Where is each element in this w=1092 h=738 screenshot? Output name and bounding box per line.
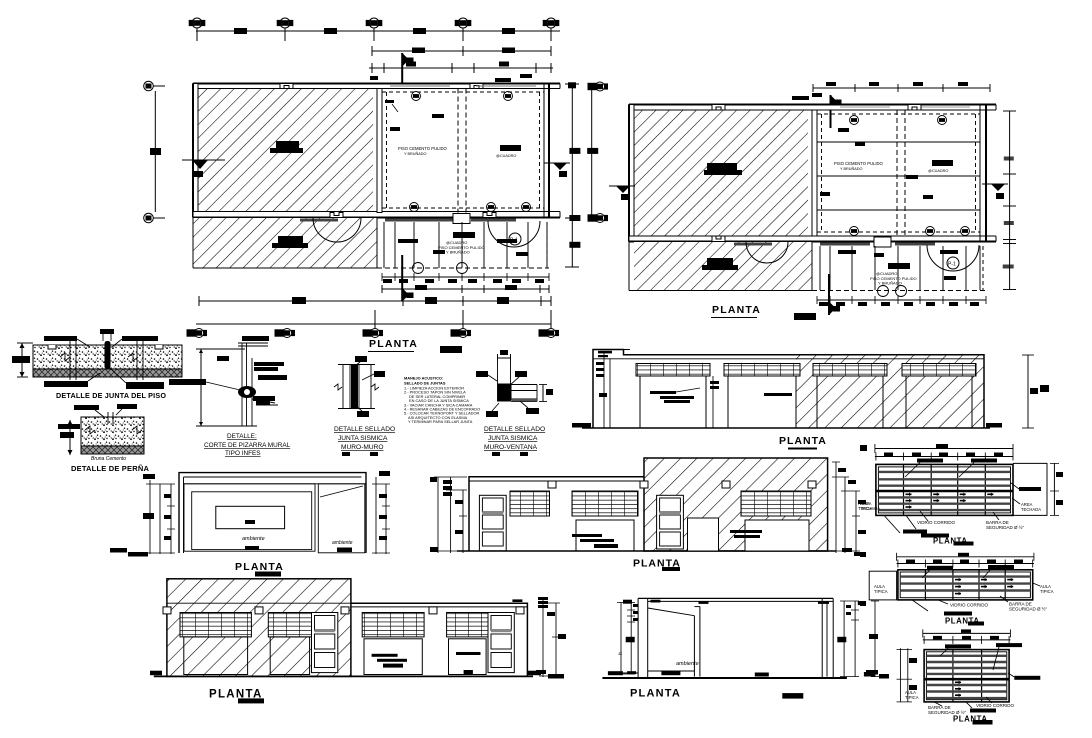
svg-text:SEGURIDAD Ø ½": SEGURIDAD Ø ½" <box>1009 606 1048 612</box>
svg-text:VIDRIO CORRIDO: VIDRIO CORRIDO <box>976 703 1015 708</box>
left part outline <box>469 477 644 551</box>
svg-text:ambiente: ambiente <box>676 661 699 667</box>
top joint lines perña <box>107 412 109 424</box>
window sills in top wall <box>390 85 536 87</box>
middle dashed wall rooms B/C <box>457 89 459 213</box>
grille band 2 <box>724 364 800 377</box>
patio plan2 door arc <box>927 245 979 271</box>
svg-text:JUNTA SISMICA: JUNTA SISMICA <box>338 435 388 442</box>
svg-text:DETALLE SELLADO: DETALLE SELLADO <box>334 426 395 433</box>
opening 4 elev4 <box>449 639 487 675</box>
dim bracket left pizarra <box>200 349 202 426</box>
middle divider tab1 <box>876 490 1013 493</box>
fixture blobs pizarra <box>238 386 275 405</box>
left wall section <box>637 598 639 678</box>
grid bubble A4 <box>455 18 471 28</box>
top cap pizarra <box>238 342 268 344</box>
lower hatched strip <box>193 218 377 268</box>
svg-text:PLANTA: PLANTA <box>779 435 827 447</box>
door leaf bar strip plan2 <box>734 243 772 246</box>
pilaster squares elev4 <box>163 607 524 614</box>
bruña leader labels patio <box>398 239 528 256</box>
dim text blobs top row <box>234 28 515 34</box>
top right small text elev4 <box>512 599 522 602</box>
top labels junta piso <box>44 329 158 341</box>
joint strip black <box>351 365 358 409</box>
left dims elev2 <box>149 480 151 554</box>
dashed border verticals rooms E/F <box>821 114 823 232</box>
right dim bracket ventana <box>542 385 544 402</box>
wall lines pizarra <box>241 343 243 426</box>
dim row under patio 1 <box>382 276 549 278</box>
patio bottom dashed line <box>377 267 549 269</box>
garage door 2 <box>728 376 796 428</box>
small text top-left elev1 <box>598 351 612 357</box>
room D label blobs <box>704 163 742 175</box>
lower hatched strip plan2 <box>634 242 812 290</box>
frame tab2 <box>898 570 1033 600</box>
caps muro-muro <box>338 364 375 366</box>
patio plan2 labels <box>888 263 910 269</box>
left dims tab3 <box>900 648 902 702</box>
top-left labels plan2 <box>792 93 822 100</box>
strip label blobs <box>272 236 308 248</box>
svg-text:ambiente: ambiente <box>332 540 353 546</box>
svg-text:@CUADRO: @CUADRO <box>928 169 948 173</box>
dim line 1 tab1 <box>875 448 1013 450</box>
frame tab3 <box>924 650 1009 702</box>
dim row 3 <box>369 67 553 69</box>
stray left marks tab2 <box>860 552 866 606</box>
svg-text:PISO CEMENTO PULIDO: PISO CEMENTO PULIDO <box>398 146 448 151</box>
bottom EJE bubble B4 <box>451 329 471 338</box>
left grid bubble 2 <box>144 213 154 223</box>
roof slope interior <box>648 608 695 616</box>
top dim bracket <box>498 357 511 359</box>
svg-text:PLANTA: PLANTA <box>712 304 761 316</box>
slab stippled <box>33 345 182 369</box>
room F label blob <box>932 160 953 166</box>
garage door 1 <box>640 376 706 428</box>
louvre arrows tab1 <box>906 493 994 509</box>
right EJE bubbles <box>588 82 608 91</box>
dashed border verticals rooms B/C <box>386 92 388 208</box>
opening 3 elev4 <box>364 639 422 675</box>
base course perña <box>81 446 144 454</box>
grille band 4 elev4 <box>447 613 488 637</box>
elevation 1: right-middle four garage doors <box>572 350 1049 449</box>
svg-text:ambiente: ambiente <box>242 536 265 542</box>
slab top notches <box>48 345 56 349</box>
middle divider tab3 <box>924 678 1009 681</box>
dim row under patio 2 <box>382 288 549 290</box>
bottom EJE bubble B5 <box>539 329 559 338</box>
right wall T caps plan2 <box>974 104 996 106</box>
frame tab1 <box>876 464 1013 515</box>
svg-text:DETALLE SELLADO: DETALLE SELLADO <box>484 426 545 433</box>
grille band A elev3 <box>510 491 550 516</box>
section flag top A <box>402 53 413 83</box>
patio label blobs <box>453 232 475 238</box>
right label tab3 <box>1014 676 1040 680</box>
svg-text:Y BRUÑADO: Y BRUÑADO <box>404 151 427 156</box>
bottom wall window bars dark <box>385 219 453 222</box>
scale bar elev5 <box>782 693 803 699</box>
svg-text:PLANTA: PLANTA <box>235 561 284 573</box>
NPT label left elev1 <box>572 423 591 428</box>
grille band 2 elev4 <box>268 613 311 637</box>
patio vertical lines <box>384 222 547 268</box>
patio plan2 circles <box>878 286 889 297</box>
bottom leaders tab1 <box>884 515 900 533</box>
small label top-left of rooms <box>495 74 532 82</box>
bottom leaders tab3 <box>934 702 942 706</box>
dim row 2 <box>372 50 551 52</box>
horizontal rails tab3 <box>926 656 1006 698</box>
svg-text:h: h <box>618 652 624 655</box>
right dims elev2 <box>375 477 377 554</box>
left edge NPT mark tab3 <box>864 672 875 677</box>
break marks muro-muro <box>334 384 342 390</box>
wall notch marks top <box>280 84 293 89</box>
ground elev3 <box>457 550 836 552</box>
strip label blobs plan2 <box>702 258 738 270</box>
grid bubble A3 <box>366 18 382 28</box>
patio plan2 door bars <box>820 243 870 246</box>
grille band 4 <box>902 364 976 377</box>
dim row 2 tab3 <box>923 639 1011 641</box>
door leaf dark bar lower-left <box>300 219 338 222</box>
right side labels tab1 <box>1019 487 1041 491</box>
horizontal rails tab2 <box>900 577 1030 591</box>
top labels tab3 <box>945 643 1022 648</box>
grille band 1 elev4 <box>180 613 251 637</box>
left dim arrow <box>21 343 23 377</box>
elevation 2: lower-left interior elevation <box>110 471 390 577</box>
grille band 3 <box>813 364 887 377</box>
detail: junta del piso <box>12 329 182 400</box>
column circles P-1 bottom <box>410 203 419 212</box>
svg-text:DETALLE DE JUNTA DEL PISO: DETALLE DE JUNTA DEL PISO <box>56 391 166 400</box>
bottom EJE bubble B2 <box>275 329 295 338</box>
svg-text:VIDRIO CORRIDO: VIDRIO CORRIDO <box>917 520 956 525</box>
bottom tick pizarra <box>233 425 257 427</box>
svg-text:MURO-MURO: MURO-MURO <box>341 444 384 451</box>
P-1 circle patio <box>509 233 521 245</box>
grille band 1 <box>636 364 710 377</box>
dim line 1 tab2 <box>897 556 1034 558</box>
svg-text:CORTE DE PIZARRA MURAL: CORTE DE PIZARRA MURAL <box>204 442 291 449</box>
opening mid elev3 <box>688 518 719 551</box>
section flag bottom plan2 <box>829 274 840 315</box>
rooms right wall <box>980 105 986 242</box>
stacked pane door right elev4 <box>488 613 514 673</box>
detail: sellado muro-muro <box>334 356 395 456</box>
svg-text:PLANTA: PLANTA <box>369 338 418 350</box>
bay4 opening elev3 <box>745 520 809 551</box>
labels perña <box>58 404 137 429</box>
dim row 2 tab2 <box>897 563 1034 565</box>
wall vertical lines ventana <box>497 363 499 402</box>
benchmark left <box>182 160 225 177</box>
patio plan2 walls <box>874 237 891 247</box>
garage door 1 elev4 <box>184 637 248 675</box>
room D walls <box>629 105 986 242</box>
floor plan 2 (top-right) <box>609 82 1016 320</box>
right lower part outline <box>351 603 528 676</box>
right end marks elev1 <box>986 385 1049 428</box>
right dims elev3 <box>835 462 837 553</box>
horizontal rails tab1 <box>878 472 1010 510</box>
rooms E/F left wall <box>812 110 817 236</box>
outer top band <box>179 473 366 553</box>
stacked pane door left elev4 <box>312 613 338 673</box>
section flag bottom A <box>402 255 413 302</box>
room A walls <box>193 84 545 218</box>
elevation 4: bottom-left elevation <box>150 579 566 704</box>
svg-text:DETALLE:: DETALLE: <box>227 433 257 440</box>
wall left lines <box>342 365 344 409</box>
inner wall panel <box>184 484 315 551</box>
svg-text:Y TERMINAR PARA SELLAR JUNTA: Y TERMINAR PARA SELLAR JUNTA <box>408 419 473 424</box>
dim line 1 tab3 <box>923 632 1011 634</box>
svg-text:PISO CEMENTO PULIDO: PISO CEMENTO PULIDO <box>834 161 884 166</box>
patio plan2 bottom dashed <box>812 290 986 292</box>
break marks perña <box>85 426 95 434</box>
right bracket tab1 <box>1013 463 1047 515</box>
elevation 5: bottom-middle section <box>602 598 889 699</box>
room D hatched interior <box>634 110 808 236</box>
right wall T caps <box>538 83 560 85</box>
svg-text:VIDRIO CORRIDO: VIDRIO CORRIDO <box>950 603 989 608</box>
top-left mark tab1 <box>860 445 867 451</box>
patio door swing arc top right <box>488 221 540 247</box>
left grid bubble 1 <box>144 81 154 91</box>
room A label blobs <box>270 141 303 153</box>
elevation 3: lower-middle elevation <box>430 458 873 571</box>
door swing arc strip plan2 <box>746 242 788 263</box>
grid bubble A1 <box>189 18 205 28</box>
notes text block <box>404 376 480 425</box>
window sills plan2 top wall <box>840 106 970 108</box>
top labels tab2 <box>927 565 1014 570</box>
base course crosshatch <box>33 369 182 377</box>
left side vertical dim with bubbles <box>154 91 156 212</box>
column circles P-1 top <box>412 92 421 101</box>
labels muro-muro <box>355 356 385 417</box>
garage door 3 <box>817 376 883 428</box>
ground line elev5 <box>602 677 847 679</box>
benchmark right plan2 <box>982 184 1008 199</box>
ground line elev4 <box>154 675 533 677</box>
interior base line elev5 <box>609 672 638 674</box>
central pillar patio <box>453 214 470 224</box>
room C label blob <box>500 145 521 151</box>
bottom labels junta piso <box>44 381 164 389</box>
window sill lines <box>512 384 538 386</box>
svg-text:Y BRUÑADO: Y BRUÑADO <box>878 281 902 286</box>
patio right dashed edge <box>546 222 548 268</box>
bay2 opening elev3 <box>576 520 634 551</box>
garage door 2 elev4 <box>270 637 309 675</box>
small leader texts room B top-left <box>385 100 400 131</box>
small circles at patio bottom <box>413 263 424 274</box>
patio plan2 vertical lines <box>820 246 980 290</box>
window schedule table 2 <box>860 552 1054 626</box>
svg-text:PLANTA: PLANTA <box>630 688 681 700</box>
scale bar plan1 <box>440 346 462 353</box>
room A hatched interior <box>197 88 373 212</box>
left dims elev3 <box>437 477 439 553</box>
wall notch marks plan2 <box>712 105 725 111</box>
vertical mullions tab3 <box>953 650 982 702</box>
pilaster squares elev3 <box>548 481 816 488</box>
dim marks between doors <box>712 376 714 428</box>
svg-text:JUNTA SISMICA: JUNTA SISMICA <box>488 435 538 442</box>
bruña label mid <box>432 114 444 118</box>
right wall elev5 <box>821 598 823 678</box>
level mark bars elev5 <box>608 600 829 677</box>
svg-text:TECHADA: TECHADA <box>1021 507 1041 512</box>
stacked pane door far left <box>479 495 506 551</box>
dashed line below top wall <box>382 91 544 93</box>
louvre arrows tab2 <box>955 578 1013 596</box>
detail: perña <box>58 404 149 473</box>
hatched tall left block <box>167 579 351 677</box>
right vertical dim plan2 <box>1009 111 1011 290</box>
hatched right half <box>796 355 984 428</box>
rooms E/F dashed lines <box>817 113 980 115</box>
right wall rooms <box>544 84 549 218</box>
window schedule table 3 <box>864 629 1040 724</box>
bottom bubble row line <box>196 323 551 325</box>
slab stippled perña <box>81 417 144 446</box>
svg-text:Bruna Cemento: Bruna Cemento <box>91 456 126 462</box>
bottom leaders tab2 <box>912 600 928 611</box>
bottom EJE bubble B1 <box>187 329 207 338</box>
svg-text:MURO-VENTANA: MURO-VENTANA <box>484 444 538 451</box>
joint filler black <box>105 341 111 369</box>
svg-text:P-1: P-1 <box>948 262 956 268</box>
joint block black ventana <box>498 384 512 402</box>
bruña labels patio plan2 <box>838 250 958 280</box>
svg-text:Y BRUÑADO: Y BRUÑADO <box>446 250 470 255</box>
left dim perña <box>69 420 71 455</box>
columns P-1 plan2 <box>850 116 859 125</box>
left dims elev5 <box>630 603 632 675</box>
vertical mullions tab2 <box>925 570 1005 600</box>
top beam <box>638 597 833 599</box>
far right dim elev5 <box>874 601 876 677</box>
bay4 grille elev3 <box>741 491 811 516</box>
stacked pane door mid elev3 <box>657 495 684 549</box>
leader texts elev1 doors <box>650 381 792 403</box>
dim row 2 tab1 <box>875 456 1013 458</box>
middle dashed wall rooms E/F <box>896 110 898 236</box>
svg-text:TECHADA: TECHADA <box>860 506 880 511</box>
outline elev1 <box>593 350 984 429</box>
ground line elev1 <box>582 427 990 429</box>
dim row below patio plan2 <box>817 299 986 301</box>
top dim line <box>813 87 990 89</box>
garage door 4 <box>906 376 972 428</box>
door swing arc lower strip <box>313 218 361 242</box>
detail: corte de pizarra mural <box>169 336 291 457</box>
svg-text:@CUADRO: @CUADRO <box>496 154 516 158</box>
svg-text:SEGURIDAD Ø ½": SEGURIDAD Ø ½" <box>986 524 1025 530</box>
svg-text:TIPICA: TIPICA <box>905 695 919 700</box>
hatched right tall part <box>644 458 828 551</box>
chalkboard <box>216 506 285 528</box>
right dims elev5 <box>843 601 845 677</box>
top grid bubble row line <box>196 30 560 32</box>
top labels with leaders tab1 <box>917 459 997 463</box>
grid bubble A5 <box>543 18 559 28</box>
window schedule table 1 <box>860 444 1063 546</box>
long dim row 3 <box>199 300 551 302</box>
benchmark right <box>544 163 570 177</box>
left dim column elev1 <box>603 351 605 428</box>
leader labels rooms E/F <box>820 128 933 199</box>
left bracket box tab2 <box>869 571 896 600</box>
grid bubble A2 <box>277 18 293 28</box>
interior door frame elev5 <box>693 616 695 677</box>
svg-text:TIPO INFES: TIPO INFES <box>225 450 261 457</box>
NPT bars bottom left elev2 <box>110 548 148 557</box>
dowel sleeves <box>69 340 71 380</box>
annex right elev2 <box>318 484 365 553</box>
vertical mullions tab1 <box>904 464 986 515</box>
right dim elev1 <box>1027 355 1029 428</box>
bay2 grille elev3 <box>572 491 638 516</box>
benchmark left plan2 <box>609 186 635 200</box>
hatch on sill <box>512 399 537 402</box>
section flag top plan2 <box>831 95 842 128</box>
right vertical dim <box>571 84 573 267</box>
svg-text:DETALLE DE PERÑA: DETALLE DE PERÑA <box>71 464 149 473</box>
bottom EJE bubble B3 <box>363 329 383 338</box>
labels pizarra <box>169 362 287 385</box>
break marks slab <box>60 353 70 361</box>
louvre arrows tab3 <box>955 681 961 698</box>
interior horizontal joist lines <box>817 142 980 210</box>
svg-text:Y BRUÑADO: Y BRUÑADO <box>840 166 863 171</box>
bubble stems <box>196 28 198 41</box>
labels ventana <box>476 371 539 417</box>
detail: sellado muro-ventana <box>476 350 553 456</box>
scale bar plan2 <box>794 313 816 320</box>
interior rooms B/C left wall <box>377 89 382 213</box>
P-1 circle patio plan2 <box>947 257 959 269</box>
svg-text:TIPICA: TIPICA <box>1040 589 1054 594</box>
svg-text:TIPICA: TIPICA <box>874 589 888 594</box>
floor plan 1 (top-left) <box>144 18 608 353</box>
grille band 3 elev4 <box>362 613 424 637</box>
wall right lines <box>358 365 360 409</box>
right dims elev4 <box>542 597 544 677</box>
